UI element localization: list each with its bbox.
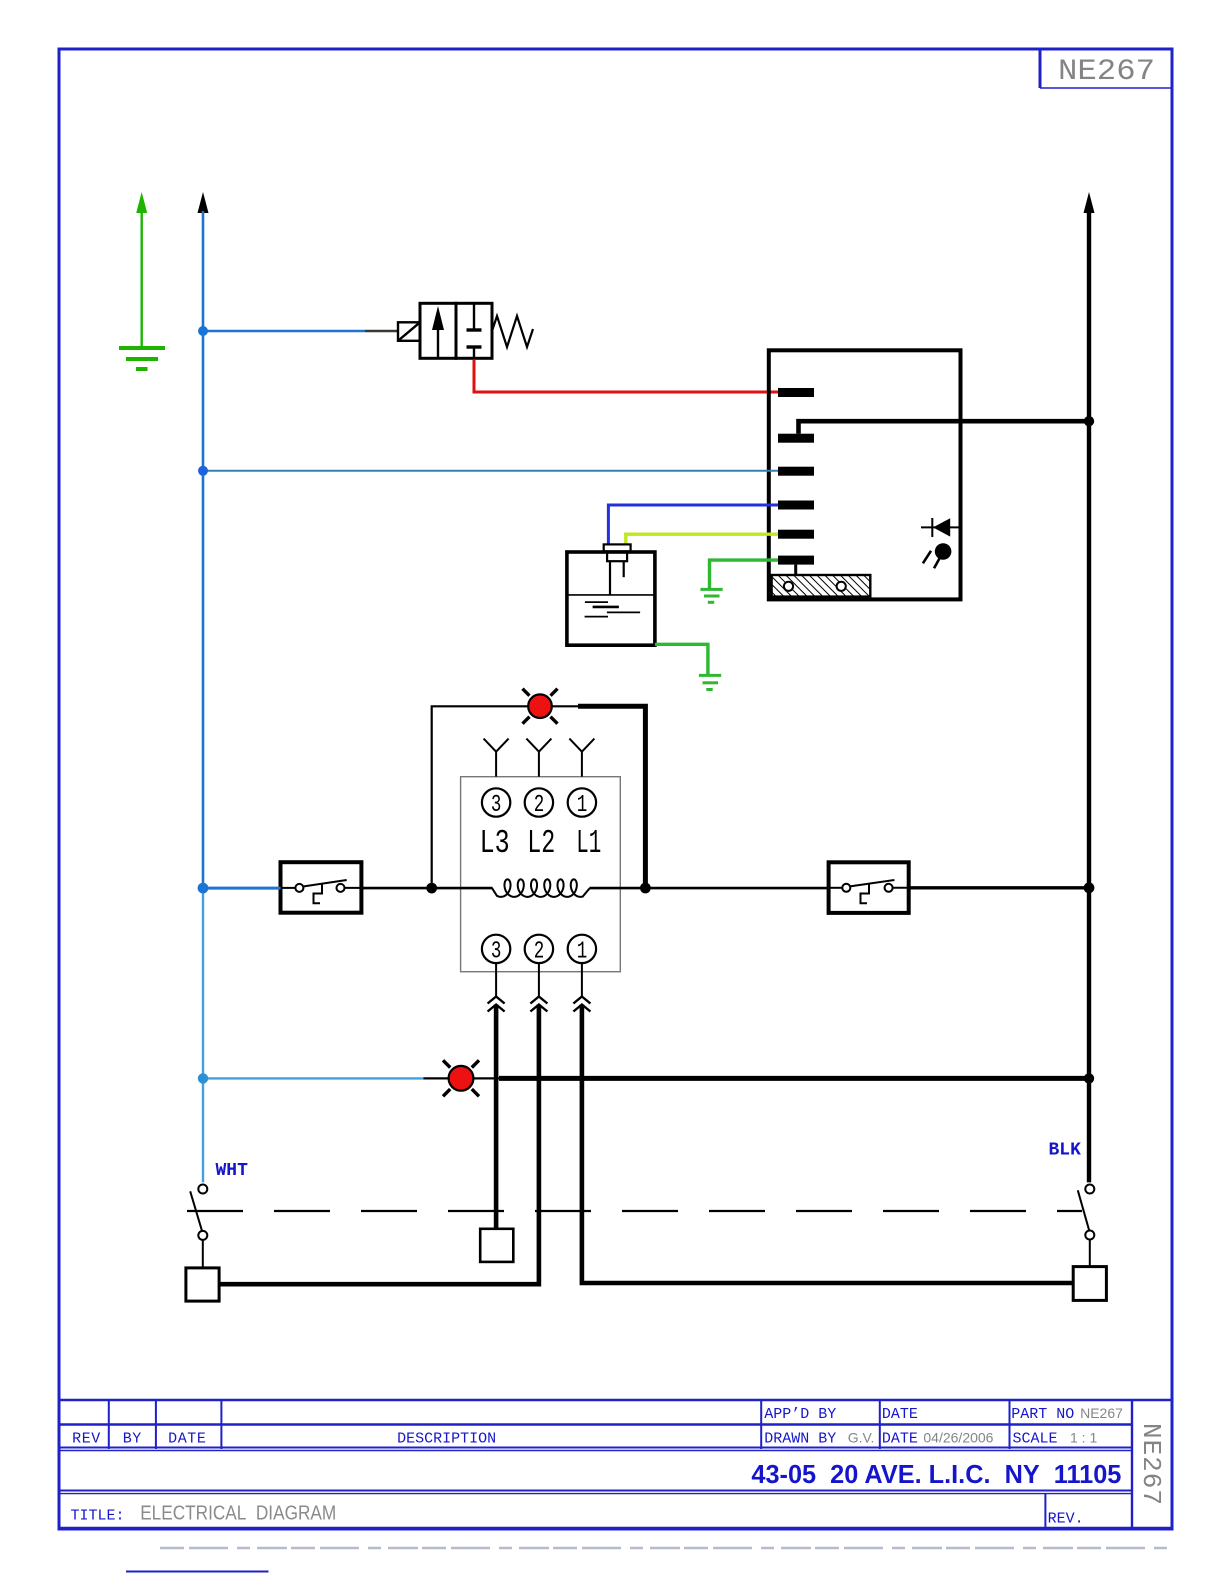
terminal T3 bbox=[778, 467, 814, 476]
motor lead W1 with chevrons bbox=[573, 963, 1073, 1283]
node blue rung junction bbox=[198, 883, 209, 894]
svg-text:L2: L2 bbox=[527, 825, 555, 862]
node valve feed junction bbox=[198, 326, 208, 336]
contactor loop wire left bbox=[432, 706, 528, 888]
node rung/BLK junction bbox=[1084, 882, 1095, 893]
terminal T6 bbox=[778, 556, 814, 565]
terminal T4 bbox=[778, 501, 814, 510]
plug P1 (left) bbox=[186, 1268, 219, 1301]
wire stub to solenoid bbox=[365, 330, 398, 332]
wire K1 coil to S2 bbox=[590, 887, 829, 890]
svg-text:L1: L1 bbox=[576, 825, 601, 862]
svg-text:BLK: BLK bbox=[1049, 1141, 1082, 1161]
node loop left junction bbox=[426, 883, 437, 894]
contactor loop wire right (thick) bbox=[552, 706, 645, 888]
title block grid lines bbox=[59, 1400, 1172, 1528]
node loop right junction bbox=[640, 883, 651, 894]
svg-text:ELECTRICAL DIAGRAM: ELECTRICAL DIAGRAM bbox=[140, 1503, 336, 1525]
svg-text:NE267: NE267 bbox=[1080, 1405, 1123, 1421]
titleblock bbox=[59, 1400, 1172, 1572]
svg-text:1 : 1: 1 : 1 bbox=[1070, 1429, 1097, 1445]
K1 labels L3 L2 L1 bbox=[480, 825, 602, 862]
wire green T6 to ground G2 bbox=[710, 560, 779, 589]
K1 bottom pins 3 2 1 bbox=[482, 935, 596, 966]
switch S1 (left) bbox=[281, 862, 362, 913]
svg-text:REV: REV bbox=[72, 1430, 101, 1447]
wire light-blue rail to T3 bbox=[203, 470, 778, 472]
control box U1 bbox=[769, 350, 961, 599]
spring (valve return) bbox=[492, 316, 533, 347]
terminal T2 bbox=[778, 434, 814, 443]
node L (white/line rail, blue vertical) bbox=[198, 192, 209, 1182]
LED D1 (in U1) bbox=[921, 518, 961, 537]
motor lead W2 with chevrons bbox=[219, 963, 547, 1284]
NE267 top-right label box bbox=[1040, 49, 1172, 89]
svg-text:WHT: WHT bbox=[216, 1161, 249, 1181]
wire red valve to terminal T1 bbox=[474, 360, 778, 392]
contactor K1 box bbox=[461, 777, 621, 972]
bottom blue underline mark bbox=[126, 1571, 269, 1573]
photodetector (in U1) bbox=[923, 543, 951, 568]
plug P2 (right) bbox=[1073, 1267, 1106, 1301]
svg-text:G.V.: G.V. bbox=[848, 1429, 875, 1445]
switch S2 (right) bbox=[829, 862, 909, 913]
svg-text:PART NO: PART NO bbox=[1011, 1406, 1074, 1423]
wire blue T4 to probe bbox=[608, 505, 778, 545]
svg-text:DESCRIPTION: DESCRIPTION bbox=[397, 1430, 496, 1447]
svg-text:L3: L3 bbox=[480, 825, 510, 862]
contact forks above K1 bbox=[484, 739, 595, 777]
wire T2 to BLK rail bbox=[799, 421, 1090, 434]
motor lead W3 with chevrons bbox=[488, 963, 505, 1229]
terminal T1 bbox=[778, 388, 814, 397]
ground G2 bbox=[700, 589, 722, 602]
svg-text:3: 3 bbox=[491, 939, 502, 966]
switch S3 (WHT plug switch) bbox=[190, 1185, 207, 1268]
svg-text:2: 2 bbox=[534, 792, 545, 819]
node lamp/BLK junction bbox=[1084, 1073, 1094, 1083]
node T3 rail junction bbox=[198, 466, 208, 476]
svg-text:2: 2 bbox=[534, 939, 545, 966]
water tank TK1 bbox=[567, 544, 655, 645]
svg-text:REV.: REV. bbox=[1048, 1511, 1084, 1528]
svg-text:43-05 20 AVE. L.I.C. NY 111: 43-05 20 AVE. L.I.C. NY 11105 bbox=[751, 1459, 1121, 1489]
node blue lamp junction bbox=[198, 1073, 208, 1083]
svg-text:NE267: NE267 bbox=[1058, 55, 1155, 89]
svg-text:DRAWN BY: DRAWN BY bbox=[764, 1430, 836, 1447]
wire light blue rail to lamp LP2 bbox=[203, 1077, 424, 1079]
wire S1 to K1 coil bbox=[361, 887, 492, 890]
scan noise dashes under title block bbox=[160, 1547, 1172, 1550]
svg-text:1: 1 bbox=[577, 792, 588, 819]
wire yellow T5 to probe bbox=[626, 534, 778, 545]
lamp LP2 (red, lower) bbox=[443, 1060, 479, 1096]
wire lamp to BLK rail bbox=[424, 1077, 1090, 1079]
svg-text:04/26/2006: 04/26/2006 bbox=[923, 1429, 993, 1445]
wire blue rail to valve solenoid bbox=[203, 330, 365, 333]
terminal T5 bbox=[778, 530, 814, 539]
switch S4 (BLK plug switch) bbox=[1078, 1185, 1095, 1267]
svg-text:TITLE:: TITLE: bbox=[71, 1508, 125, 1525]
wire blue rail to S1 bbox=[203, 887, 281, 890]
title block labels bbox=[71, 1405, 1124, 1528]
wire green tank to ground G3 bbox=[655, 644, 708, 675]
svg-text:NE267: NE267 bbox=[1136, 1423, 1166, 1506]
ground G3 bbox=[699, 675, 721, 689]
wire S2 to BLK rail bbox=[909, 886, 1089, 889]
svg-text:APP’D BY: APP’D BY bbox=[764, 1406, 836, 1423]
plug P3 (middle) bbox=[480, 1229, 513, 1262]
svg-text:BY: BY bbox=[123, 1430, 142, 1447]
dashed partition line bbox=[187, 1210, 1082, 1212]
lamp LP1 (red, top) bbox=[523, 689, 558, 724]
solenoid valve V1 bbox=[398, 303, 533, 358]
ground plate (hatched) in U1 bbox=[772, 565, 871, 597]
coil of K1 bbox=[492, 879, 590, 897]
svg-text:1: 1 bbox=[577, 939, 588, 966]
svg-text:DATE: DATE bbox=[882, 1430, 918, 1447]
svg-text:DATE: DATE bbox=[168, 1430, 206, 1447]
node BLK rail (right vertical) bbox=[1084, 192, 1095, 1182]
K1 top pins 3 2 1 bbox=[482, 788, 596, 819]
node T2/BLK junction bbox=[1084, 416, 1094, 426]
ground G1 (green earth, top left) bbox=[119, 192, 165, 369]
svg-text:DATE: DATE bbox=[882, 1406, 918, 1423]
svg-text:SCALE: SCALE bbox=[1013, 1430, 1058, 1447]
svg-text:3: 3 bbox=[491, 792, 502, 819]
